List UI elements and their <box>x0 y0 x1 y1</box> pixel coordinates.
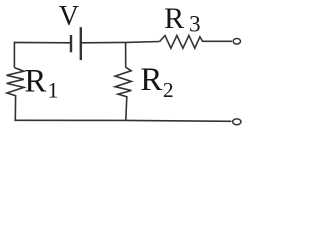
svg-text:R: R <box>140 62 162 98</box>
svg-text:3: 3 <box>189 12 201 37</box>
svg-text:V: V <box>59 1 79 32</box>
svg-text:2: 2 <box>163 78 174 102</box>
svg-text:R: R <box>24 64 46 100</box>
svg-text:R: R <box>164 2 184 35</box>
svg-text:1: 1 <box>48 77 59 102</box>
